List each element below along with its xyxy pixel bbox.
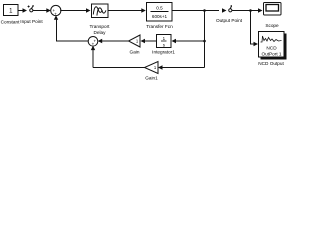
arrowhead into Gain1 [158,65,163,69]
transport delay block [92,4,109,18]
svg-text:Constant: Constant [1,19,20,24]
wire bottom feedback up into Sum2 [92,49,94,68]
arrowhead into Input Point [23,8,28,12]
svg-text:OutPort 1: OutPort 1 [261,52,281,57]
wire Output Point to Scope [232,10,258,12]
arrowhead into Sum2 bottom [91,46,95,51]
junction node C [203,40,206,43]
wire junction A down the feedback column [204,11,206,68]
wire Sum2 output left and up to Sum1 [57,18,89,41]
svg-text:Integrator1: Integrator1 [152,50,175,55]
arrowhead into Sum1 [46,8,51,12]
sum junction Sum1 [51,5,61,16]
arrowhead into NCD block [254,42,259,46]
wire Integrator1 to Gain [144,40,157,42]
svg-text:Gain1: Gain1 [145,76,158,81]
sum junction Sum2 [88,37,98,47]
scope block [264,3,282,16]
wire junction A column down to Gain1 [162,67,205,69]
gain triangle (Gain, mirrored) [129,35,141,47]
arrowhead into Scope [258,8,263,12]
NCD OutPort block with drop shadow [259,32,287,60]
svg-text:Input Point: Input Point [20,19,43,24]
wire node C to Integrator1 [175,40,205,42]
arrowhead into Transport Delay [86,8,91,12]
svg-text:NCD: NCD [266,46,277,51]
wire Transport Delay to Transfer Fcn [108,10,142,12]
svg-text:600s+1: 600s+1 [152,14,168,19]
svg-text:Output Point: Output Point [216,18,243,23]
junction node A [203,9,206,12]
arrowhead into Output Point [222,8,227,12]
constant block "1" (Constant) [4,5,19,16]
svg-text:+: + [54,11,57,16]
svg-text:Transfer Fcn: Transfer Fcn [146,24,173,29]
transfer function block 0.5/(600s+1) [147,3,173,22]
wire Transfer Fcn to Scope rail [172,10,219,12]
wire Sum1 to Transport Delay [60,10,86,12]
svg-text:Transport: Transport [90,24,111,29]
wire Gain to Sum2 [101,40,129,42]
gain triangle (Gain1, mirrored) [145,62,159,74]
node Output Point marker [229,5,232,12]
wire Constant to Input Point [18,10,23,12]
arrowhead into Sum2 [98,39,103,43]
wire Gain1 output to Sum2 column [93,67,145,69]
arrowhead into Integrator1 [172,39,177,43]
integrator block 1/s (Integrator1, mirrored) [157,35,172,48]
svg-text:+: + [92,42,95,47]
junction node B [249,9,252,12]
svg-text:Gain: Gain [130,50,140,55]
arrowhead into Sum1 bottom [54,15,58,20]
wire Input Point to Sum1 [33,10,47,12]
svg-text:0.5: 0.5 [156,5,163,10]
svg-text:Scope: Scope [265,23,279,28]
arrowhead into Transfer Fcn [141,8,146,12]
node Input Point marker [28,5,34,12]
svg-text:Delay: Delay [94,30,107,35]
arrowhead into Gain [141,39,146,43]
svg-text:NCD Output: NCD Output [258,61,284,66]
wire junction B down to NCD block [251,11,255,45]
